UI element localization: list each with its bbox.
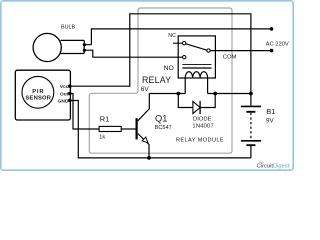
- svg-text:BC547: BC547: [155, 125, 172, 131]
- svg-text:Out: Out: [60, 91, 69, 97]
- svg-text:1N4007: 1N4007: [192, 124, 214, 130]
- svg-text:AC 220V: AC 220V: [266, 41, 289, 47]
- svg-text:Vcc: Vcc: [60, 84, 69, 90]
- svg-text:COM: COM: [223, 54, 237, 60]
- svg-text:B1: B1: [266, 107, 275, 116]
- svg-text:1k: 1k: [99, 134, 105, 140]
- svg-text:NO: NO: [164, 65, 174, 72]
- svg-text:GND: GND: [58, 98, 69, 104]
- svg-text:9V: 9V: [266, 118, 274, 125]
- svg-text:CircuitDigest: CircuitDigest: [257, 163, 290, 169]
- svg-text:RELAY MODULE: RELAY MODULE: [176, 137, 224, 143]
- svg-text:6V: 6V: [141, 86, 150, 93]
- svg-text:RELAY: RELAY: [142, 75, 171, 85]
- svg-text:PIR: PIR: [32, 89, 44, 95]
- svg-text:R1: R1: [100, 115, 109, 124]
- svg-text:BULB: BULB: [61, 24, 75, 30]
- svg-text:SENSOR: SENSOR: [25, 96, 51, 102]
- svg-text:Q1: Q1: [155, 113, 167, 123]
- svg-text:DIODE: DIODE: [193, 117, 211, 123]
- svg-text:NC: NC: [168, 33, 176, 39]
